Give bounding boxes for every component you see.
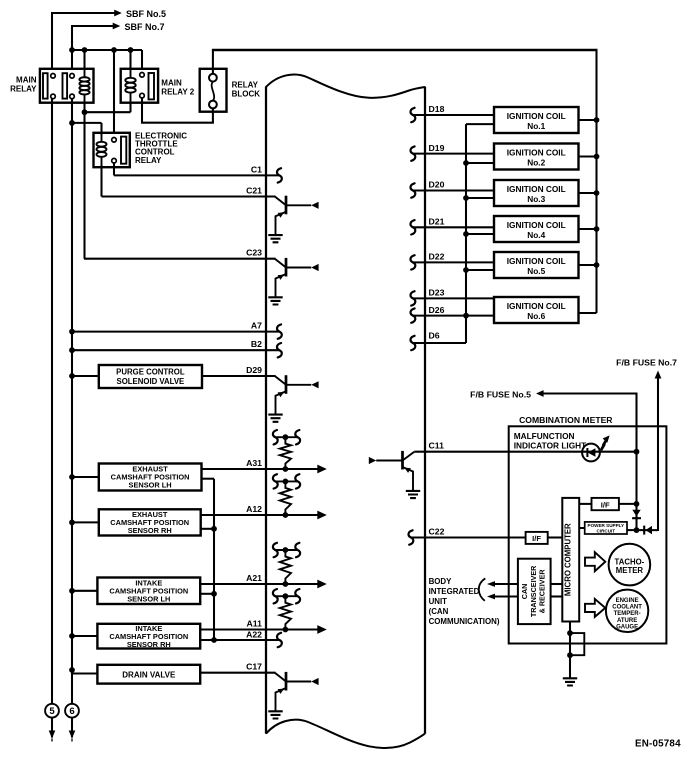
component PURGE CONTROL SOLENOID VALVE — [69, 365, 202, 388]
diode D1 (down) — [632, 510, 641, 518]
gauge TACHOMETER — [609, 544, 651, 586]
ground — [268, 711, 282, 718]
arrow A31 into ECM — [317, 465, 327, 474]
diode D2 (left) — [644, 526, 652, 535]
wire pin C11 to malfunction indicator light — [414, 451, 636, 453]
svg-text:C22: C22 — [429, 527, 445, 537]
node junction feed bus tap — [463, 160, 494, 166]
relay K2 MAIN RELAY 2 — [121, 69, 158, 103]
node junction feed bus tap — [463, 267, 494, 273]
transistor Q2 (C23 driver) — [275, 258, 319, 297]
transistor Q5 (C11 driver) — [369, 451, 415, 490]
ignition coil No.4 — [494, 216, 599, 242]
wire ignition feed bus — [466, 124, 494, 343]
svg-text:SENSOR LH: SENSOR LH — [129, 480, 172, 489]
svg-text:& RECEIVER: & RECEIVER — [538, 569, 547, 614]
wire pin B2 — [69, 347, 279, 353]
svg-text:C23: C23 — [246, 248, 262, 258]
ground — [268, 235, 282, 242]
svg-text:RELAY: RELAY — [135, 156, 162, 165]
node junction bus/SBF7 — [69, 47, 75, 53]
svg-text:SENSOR RH: SENSOR RH — [128, 526, 172, 535]
svg-text:DRAIN VALVE: DRAIN VALVE — [122, 671, 176, 680]
wire CAN to micro computer (2) — [551, 584, 563, 597]
wire power supply node to F/B fuse 7 — [637, 529, 659, 531]
ignition coil No.6 — [494, 297, 597, 323]
svg-text:A12: A12 — [246, 504, 262, 514]
svg-text:D21: D21 — [429, 217, 445, 227]
wire MIL supply drop — [635, 452, 637, 530]
node junction bus/main-relay-2 coil — [128, 47, 134, 53]
node junction coil common — [82, 109, 88, 115]
svg-text:INDICATOR LIGHT: INDICATOR LIGHT — [514, 440, 587, 450]
wire main relay coil / MR2 coil common to C23 — [84, 102, 131, 259]
relay block fusible link — [200, 69, 227, 112]
svg-text:D22: D22 — [429, 252, 445, 262]
svg-text:UNIT: UNIT — [429, 597, 448, 606]
node junction ground lead upper — [567, 630, 573, 636]
svg-text:No.6: No.6 — [527, 311, 545, 321]
transistor Q1 (C21 driver) — [275, 196, 319, 235]
wire ETC relay coil to pin C21 — [102, 165, 276, 197]
svg-text:IGNITION COIL: IGNITION COIL — [507, 256, 566, 266]
svg-text:C11: C11 — [429, 441, 445, 451]
pin C22 — [409, 527, 526, 545]
combination meter box — [509, 426, 667, 643]
component DRAIN VALVE — [69, 665, 200, 684]
node junction feed bus tap — [463, 231, 494, 237]
ECM body outline left — [265, 87, 267, 734]
svg-text:TEMPER-: TEMPER- — [614, 611, 641, 617]
wire CAN bus lines to body integrated unit — [487, 581, 518, 599]
ignition coil No.1 — [494, 107, 599, 133]
transistor Q4 (C17 driver) — [275, 672, 319, 711]
svg-text:ENGINE: ENGINE — [616, 598, 639, 604]
svg-text:METER: METER — [616, 566, 644, 575]
pin D22 — [411, 252, 494, 270]
wire SBF No.7 feed — [72, 23, 120, 74]
svg-text:B2: B2 — [251, 339, 262, 349]
wire left power bus 1 (to connector 5) — [51, 98, 53, 704]
label ELECTRONIC THROTTLE CONTROL RELAY — [135, 132, 187, 165]
svg-text:IGNITION COIL: IGNITION COIL — [507, 220, 566, 230]
ECM bottom wave — [266, 720, 425, 748]
svg-text:A11: A11 — [247, 619, 263, 629]
svg-text:MAIN: MAIN — [16, 76, 37, 85]
label MAIN RELAY 2 — [161, 79, 194, 97]
resistor R1 (A31) pull-up — [273, 430, 300, 472]
transistor Q3 (D29 driver) — [275, 375, 319, 414]
ECM top wave — [266, 75, 425, 98]
ground — [268, 415, 282, 422]
net F/B FUSE No.7 — [616, 358, 677, 532]
svg-text:C1: C1 — [251, 164, 262, 174]
svg-text:EN-05784: EN-05784 — [635, 739, 681, 750]
svg-text:(CAN: (CAN — [429, 607, 449, 616]
ground combination meter — [563, 678, 577, 685]
svg-text:RELAY: RELAY — [232, 81, 259, 90]
node junction D26/ignition feed bus — [463, 313, 469, 319]
svg-text:C17: C17 — [246, 662, 262, 672]
pin B2 — [251, 339, 282, 357]
pin D6 — [411, 331, 466, 351]
wire drain valve to pin C17 — [200, 672, 275, 674]
svg-text:CIRCUIT: CIRCUIT — [596, 529, 615, 534]
svg-text:RELAY 2: RELAY 2 — [161, 88, 194, 97]
component INTAKE CAMSHAFT POSITION SENSOR RH — [69, 624, 200, 649]
svg-text:D29: D29 — [246, 365, 262, 375]
svg-text:I/F: I/F — [532, 534, 541, 543]
pin D18 — [411, 104, 494, 122]
IC I/F (C22) — [526, 532, 548, 544]
ECM body outline right — [424, 87, 426, 734]
wire relay block bottom to main relay 2 contact — [141, 98, 214, 123]
wire main relay 2 coil top lead — [129, 50, 131, 78]
net F/B FUSE No.5 — [470, 389, 637, 452]
label MAIN RELAY — [10, 76, 37, 94]
wire pin A7 — [69, 329, 279, 335]
svg-text:A7: A7 — [251, 321, 262, 331]
wire exhaust LH signal to pin A31 — [202, 468, 320, 470]
ignition coil No.3 — [494, 180, 599, 206]
arrow A11 into ECM — [317, 625, 327, 634]
svg-text:No.1: No.1 — [527, 121, 545, 131]
svg-text:COMMUNICATION): COMMUNICATION) — [429, 617, 500, 626]
relay K1 MAIN RELAY — [40, 69, 94, 103]
svg-text:A21: A21 — [246, 573, 262, 583]
node junction I/F tap — [634, 501, 640, 507]
wire sensor return to pin A22 — [200, 637, 279, 643]
svg-text:F/B FUSE No.7: F/B FUSE No.7 — [616, 358, 677, 368]
wire main relay coil top lead — [83, 50, 85, 77]
svg-text:6: 6 — [69, 706, 74, 717]
pin D23 — [411, 288, 494, 306]
pin D21 — [411, 217, 494, 235]
svg-text:BLOCK: BLOCK — [232, 89, 261, 98]
wire connector loop at meter boundary — [570, 633, 584, 655]
wire exhaust RH return junction — [201, 526, 217, 532]
svg-text:RELAY: RELAY — [10, 85, 37, 94]
wire power supply circuit to node — [627, 529, 637, 531]
svg-text:No.2: No.2 — [527, 158, 545, 168]
svg-text:D18: D18 — [429, 104, 445, 114]
svg-text:IGNITION COIL: IGNITION COIL — [507, 148, 566, 158]
wire purge valve to pin D29 — [202, 375, 276, 377]
node junction MIL/C11 supply — [634, 449, 640, 455]
svg-text:D6: D6 — [429, 331, 440, 341]
wire exhaust RH signal to pin A12 — [201, 514, 320, 516]
svg-text:SENSOR RH: SENSOR RH — [127, 640, 171, 649]
node junction power supply node — [634, 527, 640, 533]
ground — [268, 297, 282, 304]
label MALFUNCTION INDICATOR LIGHT — [514, 431, 587, 450]
wire SBF No.5 feed — [52, 10, 122, 74]
relay K3 ELECTRONIC THROTTLE CONTROL RELAY — [94, 133, 130, 167]
wire upper I/F to supply — [619, 503, 637, 505]
ignition coil No.2 — [494, 144, 599, 170]
pin D19 — [411, 143, 494, 161]
node junction left bus / ETC coil — [69, 120, 75, 126]
node junction ground lead lower — [567, 652, 573, 658]
pin A22 — [246, 629, 282, 647]
gauge ENGINE COOLANT TEMPERATURE GAUGE — [606, 590, 648, 632]
resistor R2 (A12) pull-up — [273, 474, 300, 518]
resistor R3 (A21) pull-up — [273, 543, 300, 587]
svg-text:No.3: No.3 — [527, 194, 545, 204]
svg-text:CAN: CAN — [520, 584, 529, 600]
wire micro computer to upper I/F — [579, 503, 591, 505]
wire C22 I/F to micro computer — [548, 536, 563, 538]
wire micro computer to power supply circuit — [579, 527, 585, 529]
svg-text:IGNITION COIL: IGNITION COIL — [507, 301, 566, 311]
svg-text:SENSOR LH: SENSOR LH — [127, 594, 170, 603]
component EXHAUST CAMSHAFT POSITION SENSOR RH — [69, 509, 201, 535]
wire exhaust LH return — [202, 479, 215, 641]
svg-text:C21: C21 — [246, 186, 262, 196]
svg-text:MICRO COMPUTER: MICRO COMPUTER — [564, 523, 573, 596]
resistor R4 (A11) pull-up — [273, 589, 300, 632]
wire micro computer ground lead — [569, 622, 571, 678]
component INTAKE CAMSHAFT POSITION SENSOR LH — [69, 578, 200, 605]
pin D26 — [411, 305, 494, 323]
ignition coil No.5 — [494, 252, 599, 278]
wire main relay pin to ETC relay coil — [71, 123, 102, 135]
pin C1 — [251, 164, 282, 182]
svg-text:F/B FUSE No.5: F/B FUSE No.5 — [470, 389, 531, 399]
wire ETC relay supply drop — [113, 50, 115, 138]
wire top supply bus — [71, 50, 142, 74]
connector 6 — [65, 704, 79, 742]
node junction bus/main-relay coil — [82, 47, 88, 53]
node junction feed bus tap — [463, 195, 494, 201]
svg-text:COOLANT: COOLANT — [612, 605, 642, 611]
wire relay coil common to pin C23 — [84, 258, 276, 260]
svg-text:SOLENOID VALVE: SOLENOID VALVE — [117, 377, 185, 386]
arrow A12 into ECM — [317, 511, 327, 520]
arrow micro computer to tachometer — [585, 552, 605, 571]
svg-text:No.5: No.5 — [527, 266, 545, 276]
svg-text:A22: A22 — [246, 629, 262, 639]
pin D20 — [411, 180, 494, 198]
IC I/F (upper) — [592, 498, 619, 510]
connector bracket (CAN) — [479, 578, 486, 600]
svg-text:COMBINATION METER: COMBINATION METER — [519, 415, 613, 425]
label BODY INTEGRATED UNIT (CAN COMMUNICATION) — [429, 577, 500, 626]
box POWER SUPPLY CIRCUIT — [585, 522, 627, 534]
ground — [406, 491, 420, 498]
svg-text:MAIN: MAIN — [161, 79, 182, 88]
svg-text:A31: A31 — [246, 458, 262, 468]
wire relay block top to ignition supply — [212, 50, 598, 313]
IC CAN TRANSCEIVER &amp; RECEIVER — [518, 559, 551, 624]
svg-text:SBF No.5: SBF No.5 — [126, 9, 166, 19]
LED malfunction indicator light — [582, 435, 610, 461]
component EXHAUST CAMSHAFT POSITION SENSOR LH — [69, 464, 201, 491]
wire intake LH signal to pin A21 — [200, 583, 319, 585]
connector 5 — [45, 704, 59, 742]
svg-text:POWER SUPPLY: POWER SUPPLY — [588, 523, 625, 528]
IC MICRO COMPUTER — [562, 498, 579, 622]
svg-text:IGNITION COIL: IGNITION COIL — [507, 184, 566, 194]
svg-text:D20: D20 — [429, 180, 445, 190]
svg-text:No.4: No.4 — [527, 230, 545, 240]
svg-text:INTEGRATED: INTEGRATED — [429, 587, 480, 596]
svg-text:ATURE: ATURE — [617, 618, 637, 624]
arrow A21 into ECM — [317, 580, 327, 589]
arrow micro computer to coolant gauge — [585, 599, 605, 617]
svg-text:IGNITION COIL: IGNITION COIL — [507, 111, 566, 121]
pin A7 — [251, 321, 282, 339]
wire intake LH return junction — [200, 591, 217, 597]
wire left power bus 2 (to connector 6) — [71, 98, 73, 704]
wire ETC relay contact to pin C1 — [114, 162, 279, 175]
svg-text:D19: D19 — [429, 143, 445, 153]
svg-text:BODY: BODY — [429, 577, 453, 586]
svg-text:D26: D26 — [429, 305, 445, 315]
svg-text:5: 5 — [49, 706, 55, 717]
svg-text:GAUGE: GAUGE — [616, 625, 638, 631]
label RELAY BLOCK — [232, 81, 261, 99]
wire intake RH signal to pin A11 — [200, 628, 319, 630]
svg-text:D23: D23 — [429, 288, 445, 298]
svg-text:PURGE CONTROL: PURGE CONTROL — [116, 367, 185, 376]
node junction bus/ETC relay — [111, 47, 117, 53]
svg-text:TACHO-: TACHO- — [615, 558, 645, 567]
svg-text:SBF No.7: SBF No.7 — [125, 22, 165, 32]
svg-text:I/F: I/F — [601, 500, 610, 509]
